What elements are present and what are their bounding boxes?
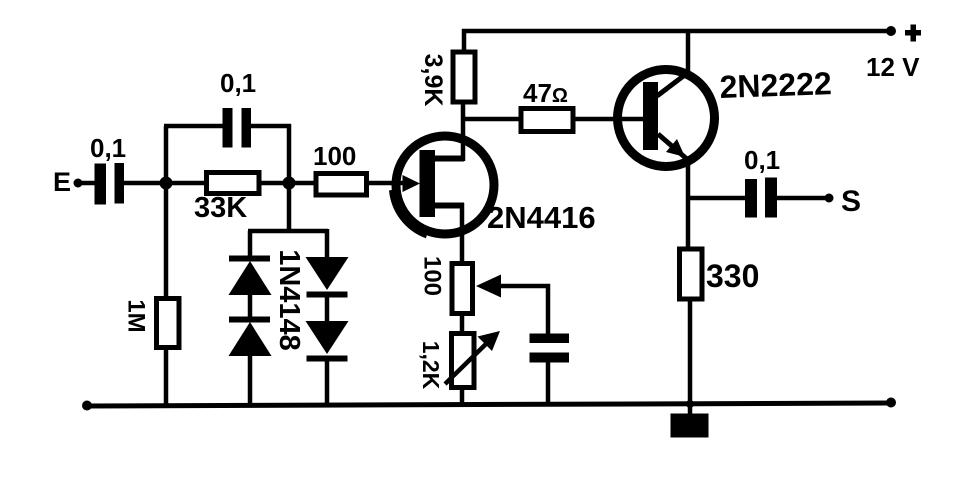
wire collector [686, 31, 691, 73]
resistor R6 330 [680, 249, 760, 299]
resistor R5 47ohm [521, 78, 573, 132]
resistor R1 33K [194, 173, 259, 225]
wire [248, 229, 328, 234]
svg-text:2N4416: 2N4416 [487, 200, 596, 235]
transistor Q1 2N4416 JFET [393, 136, 596, 235]
ground [671, 400, 709, 438]
svg-text:330: 330 [706, 258, 759, 294]
svg-text:0,1: 0,1 [744, 145, 780, 175]
svg-text:3,9K: 3,9K [419, 54, 447, 107]
diode D1 1N4148 [229, 231, 272, 295]
diode D3 1N4148 [306, 229, 349, 298]
wire [464, 31, 892, 53]
svg-text:0,1: 0,1 [90, 133, 126, 163]
wire emitter [686, 162, 691, 249]
svg-text:1,2K: 1,2K [418, 341, 444, 390]
svg-text:S: S [841, 185, 861, 218]
wire [124, 181, 207, 186]
wire [164, 124, 223, 129]
resistor R4 3,9K [419, 52, 475, 106]
svg-text:33K: 33K [194, 192, 247, 224]
node S output terminal [825, 185, 862, 218]
wire [463, 117, 521, 122]
svg-text:1M: 1M [123, 299, 150, 332]
resistor R3 100 gate [313, 141, 367, 195]
diode D4 1N4148 [306, 297, 349, 406]
resistor R8 1,2K trimmer [418, 331, 500, 405]
wire [259, 181, 316, 186]
wire [688, 196, 746, 201]
wire [777, 196, 828, 201]
wire [688, 299, 693, 404]
wire [287, 183, 292, 231]
wire [573, 117, 646, 122]
wire wiper [476, 275, 548, 336]
wire drain [461, 102, 466, 161]
node B junction [283, 177, 296, 190]
wire [287, 124, 292, 183]
wire [251, 124, 291, 129]
svg-text:12 V: 12 V [866, 52, 920, 82]
svg-text:E: E [53, 167, 71, 197]
transistor Q2 2N2222 [618, 65, 833, 166]
wire source [460, 203, 465, 265]
wire [81, 181, 95, 186]
svg-text:0,1: 0,1 [220, 68, 256, 98]
svg-text:2N2222: 2N2222 [719, 65, 832, 105]
diode D2 1N4148 [229, 295, 272, 406]
svg-text:1N4148: 1N4148 [273, 249, 305, 351]
resistor R2 1M [123, 183, 180, 406]
capacitor C3 0,1 output [744, 145, 780, 218]
node E input terminal [53, 167, 83, 197]
wire bottom rail [82, 398, 896, 411]
svg-text:100: 100 [313, 141, 356, 171]
wire [366, 181, 408, 186]
node +12V terminal [866, 25, 921, 83]
resistor R7 100 source pot [419, 256, 473, 314]
wire [460, 313, 465, 334]
wire [164, 126, 169, 183]
capacitor C1 0,1 input [90, 133, 126, 205]
capacitor C2 0,1 top [220, 68, 256, 148]
svg-text:100: 100 [419, 256, 446, 296]
node A junction [160, 177, 173, 190]
capacitor C4 source bypass [530, 334, 570, 406]
